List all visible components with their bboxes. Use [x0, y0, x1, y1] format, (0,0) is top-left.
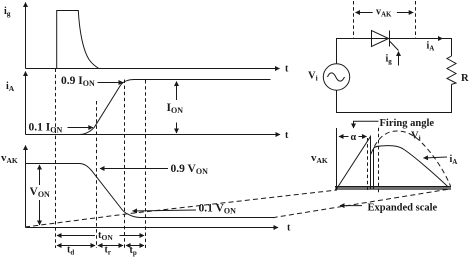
wire circuit loop [337, 39, 452, 113]
pointer arrow 0.9 ION [98, 82, 124, 84]
axis ig time [26, 68, 280, 70]
dashed firing line 2 [378, 128, 380, 195]
dimension arrow ION [176, 82, 178, 134]
svg-text:tON: tON [98, 230, 113, 242]
axis iA time [26, 134, 281, 136]
axis ig vertical [25, 3, 27, 69]
dashed timing line t=0 [55, 69, 57, 249]
svg-text:Vi: Vi [308, 71, 318, 83]
svg-text:iA: iA [427, 41, 435, 53]
svg-text:ION: ION [167, 102, 184, 115]
dimension arrow tON [57, 235, 144, 237]
Vi dashed curve expanded [371, 131, 451, 186]
dimension arrow tr [98, 245, 123, 247]
pointer arrow firing angle [354, 121, 379, 128]
dimension arrow alpha [339, 136, 367, 138]
svg-text:α: α [351, 132, 357, 143]
svg-text:t: t [285, 64, 289, 75]
pointer arrow 0.1 ION [68, 127, 93, 129]
pointer arrow expanded scale [340, 205, 362, 207]
svg-text:td: td [67, 245, 74, 257]
dashed guide cathode [415, 1, 417, 38]
dimension arrow tp [126, 245, 144, 247]
dashed timing line end of tr [124, 80, 126, 249]
svg-text:t: t [285, 130, 289, 141]
dashed expansion line right [273, 189, 451, 218]
vAK ramp expanded [337, 137, 371, 190]
svg-text:0.9 ION: 0.9 ION [61, 75, 95, 88]
svg-text:Firing angle: Firing angle [380, 118, 435, 129]
dashed expansion line left [25, 190, 337, 227]
gate current pulse [57, 11, 99, 69]
svg-text:iA: iA [450, 154, 458, 166]
axis expanded graph vertical [336, 128, 338, 190]
iA curve expanded [374, 146, 448, 189]
svg-text:iA: iA [6, 81, 15, 93]
svg-text:tr: tr [105, 245, 111, 257]
svg-text:ig: ig [4, 6, 11, 18]
anode current waveform [26, 80, 271, 135]
dimension arrow td [57, 245, 95, 247]
svg-text:vAK: vAK [1, 152, 18, 165]
dashed timing line end of td [96, 101, 98, 248]
source Vi [323, 64, 349, 90]
axis iA vertical [25, 72, 27, 135]
axis expanded graph baseline [335, 187, 451, 189]
svg-text:VON: VON [30, 186, 51, 199]
svg-text:tp: tp [130, 245, 137, 257]
axis vAK time [26, 227, 279, 229]
thyristor [372, 31, 399, 51]
resistor R [447, 56, 456, 84]
svg-text:Vi: Vi [411, 131, 421, 143]
pointer arrow 0.9 VON [100, 168, 168, 170]
pointer arrow iA (expanded) [424, 157, 448, 158]
dimension arrow vAK (circuit) [356, 12, 414, 14]
pointer arrow 0.1 VON [133, 210, 197, 211]
svg-text:vAK: vAK [376, 7, 392, 19]
current arrow iA (circuit) [428, 38, 443, 40]
svg-text:0.1 VON: 0.1 VON [199, 203, 237, 216]
svg-text:Expanded scale: Expanded scale [368, 203, 438, 214]
svg-text:vAK: vAK [311, 152, 328, 165]
svg-text:R: R [461, 73, 469, 84]
svg-text:t: t [287, 223, 291, 234]
dashed timing line end of tp [145, 80, 147, 248]
dashed firing line 1 [367, 138, 369, 190]
current arrow ig (circuit) [398, 52, 400, 66]
svg-text:0.9 VON: 0.9 VON [171, 163, 209, 176]
dimension arrow VON [39, 165, 41, 225]
axis vAK vertical [25, 146, 27, 228]
vAK waveform [26, 164, 274, 218]
svg-text:ig: ig [386, 54, 393, 66]
svg-text:0.1 ION: 0.1 ION [29, 122, 63, 135]
dashed guide anode [353, 1, 355, 38]
